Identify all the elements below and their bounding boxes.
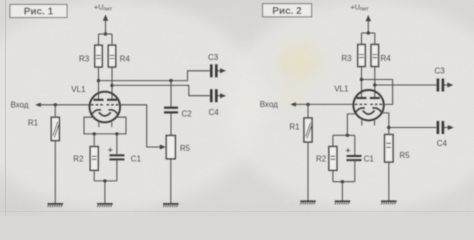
- wire: bus to ground: [104, 181, 106, 204]
- grid 1 (dashed): [355, 103, 367, 105]
- resistor R3: [79, 34, 102, 67]
- wire: supply tee: [362, 32, 375, 34]
- node: bottom bus junction: [341, 180, 344, 183]
- heater stub 2: [374, 120, 376, 125]
- node: anode 1 junction: [97, 79, 100, 82]
- node: anode 1 junction: [360, 78, 363, 81]
- capacitor C4: [437, 121, 454, 148]
- resistor R1: [28, 105, 59, 204]
- resistor R1: [289, 104, 312, 201]
- capacitor C1 (polarized): [108, 134, 142, 181]
- node: input / R1 junction: [306, 103, 309, 106]
- node: cathode 2 output junction: [387, 126, 390, 129]
- grid 1 (dashed): [91, 104, 104, 106]
- node: C1 tap on cathode bus: [115, 132, 118, 135]
- capacitor C1 (polarized): [346, 135, 375, 181]
- power supply arrow +Upit: [103, 15, 108, 35]
- tube VL1 (dual triode): [90, 92, 121, 127]
- wire: anode 1 line to C3: [99, 71, 210, 81]
- heater stub 2: [111, 122, 113, 127]
- node: anode 2 junction: [110, 84, 113, 87]
- resistor R2: [316, 135, 337, 181]
- wire: supply tee: [99, 33, 113, 35]
- wire: grid feedback to R5 wiper: [120, 105, 166, 150]
- ground (under R1): [300, 201, 316, 204]
- ground (under R1): [48, 204, 64, 207]
- ground (under R2/C1): [335, 201, 351, 204]
- grid 2 (dashed): [370, 103, 382, 105]
- wire: cathode bracket: [84, 117, 126, 134]
- potentiometer R5: [166, 136, 190, 204]
- cathode 1 arc: [92, 110, 101, 114]
- node: C2 tap junction: [169, 79, 172, 82]
- wire: R2/C1 bottom bus: [94, 180, 117, 182]
- anode plate 2: [107, 99, 117, 101]
- anode plate 2: [370, 97, 380, 99]
- cathode 1 arc: [356, 108, 365, 112]
- wire: anode 1 to grid 2 (direct coupling): [362, 80, 393, 105]
- anode plate 1: [357, 97, 367, 99]
- resistor R4: [371, 33, 391, 67]
- tube VL1 (dual triode): [353, 90, 383, 126]
- ground (under R5): [163, 204, 179, 207]
- wire: junction to C4: [389, 127, 437, 129]
- power supply arrow +Upit: [366, 15, 371, 33]
- input arrow and wire: [290, 102, 353, 106]
- capacitor C3: [208, 53, 226, 77]
- heater stub 1: [361, 120, 363, 125]
- heater arc: [99, 112, 111, 116]
- resistor R4: [108, 34, 130, 67]
- ground (under R2/C1): [97, 204, 113, 207]
- node: cathode bus junction: [346, 134, 349, 137]
- node: input / R1 junction: [54, 103, 57, 106]
- wire: anode 2 to C3: [375, 84, 437, 86]
- heater stub 1: [98, 122, 100, 127]
- grid 2 (dashed): [107, 104, 120, 106]
- wire: cathode 1 to R2/C1 bus: [347, 114, 356, 135]
- node: bottom bus junction: [103, 179, 106, 182]
- wire: cathode 2 to R5 and C4: [382, 113, 389, 135]
- wire: R2/C1 top bus: [333, 134, 355, 136]
- cathode 2 arc: [372, 108, 381, 112]
- heater arc: [363, 111, 375, 115]
- ground (under R5): [381, 201, 397, 204]
- figure label box "Рис. 1": [10, 5, 67, 18]
- node: R2 tap on cathode bus: [93, 132, 96, 135]
- node: supply junction: [367, 31, 370, 34]
- node: supply junction: [104, 32, 107, 35]
- wire: bus to ground: [341, 182, 343, 202]
- capacitor C2: [164, 81, 192, 136]
- wire: R4 to anode 2: [374, 67, 376, 99]
- wire: R4 to anode 2: [111, 67, 113, 100]
- wire: R2/C1 bottom bus: [333, 181, 355, 183]
- wire: R3 to anode 1: [361, 67, 363, 99]
- resistor R3: [341, 33, 365, 67]
- wire: R3 to anode 1: [98, 67, 100, 100]
- wire: anode 2 line to C4: [112, 85, 210, 95]
- capacitor C4: [209, 89, 227, 117]
- resistor R5: [385, 135, 411, 202]
- anode plate 1: [94, 99, 104, 101]
- node: anode 2 junction: [373, 83, 376, 86]
- figure label box "Рис. 2": [263, 4, 312, 17]
- resistor R2: [73, 134, 98, 181]
- capacitor C3: [435, 67, 454, 92]
- cathode 2 arc: [109, 110, 118, 114]
- input arrow and wire: [35, 103, 89, 107]
